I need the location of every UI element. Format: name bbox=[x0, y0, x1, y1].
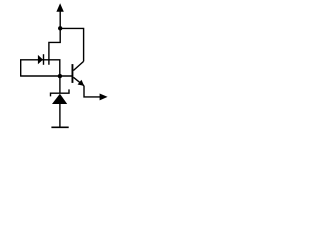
wire emitter elbow to output bbox=[84, 86, 101, 97]
wire node A down-left jog to gate line bbox=[49, 28, 60, 64]
zener diode D2 anode triangle bbox=[52, 94, 67, 104]
transistor Q1 collector lead bbox=[73, 61, 83, 70]
wire node B to zener bbox=[59, 76, 61, 93]
power supply arrow V+ bbox=[56, 3, 63, 12]
transistor Q1 emitter lead bbox=[73, 77, 84, 86]
zener diode D2 cathode bar with bent ends bbox=[51, 89, 70, 96]
transistor Q1 base bar bbox=[71, 64, 73, 83]
wire zener to ground bbox=[59, 104, 61, 128]
diode D1 cathode bar bbox=[43, 54, 45, 65]
diode D1 anode triangle bbox=[38, 55, 43, 64]
ground bar bbox=[51, 126, 68, 128]
wire left loop: diode anode wire bbox=[21, 60, 60, 76]
node B junction dot bbox=[58, 74, 62, 78]
wire V+ to node A bbox=[59, 11, 61, 28]
transistor Q1 emitter arrowhead bbox=[78, 80, 85, 86]
wire base: loop to transistor base bbox=[20, 75, 71, 77]
wire node A to collector rail bbox=[60, 28, 83, 61]
output terminal arrow bbox=[100, 94, 108, 101]
node A junction dot bbox=[58, 26, 62, 30]
